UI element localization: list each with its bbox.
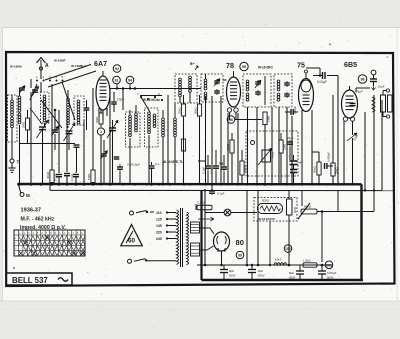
svg-text:10H: 10H — [275, 258, 281, 262]
svg-text:80: 80 — [236, 238, 244, 247]
svg-text:92: 92 — [115, 67, 119, 71]
svg-text:0.1µF: 0.1µF — [54, 173, 58, 181]
svg-text:0.0015µF: 0.0015µF — [127, 163, 140, 167]
svg-text:40kΩ: 40kΩ — [46, 171, 50, 179]
svg-text:0.1µF: 0.1µF — [217, 192, 225, 196]
svg-text:125: 125 — [156, 218, 162, 222]
svg-text:1MΩ: 1MΩ — [283, 143, 287, 150]
svg-text:BELL 537: BELL 537 — [12, 276, 48, 285]
svg-text:145: 145 — [156, 224, 162, 228]
svg-text:50kΩ: 50kΩ — [95, 117, 99, 123]
svg-text:110: 110 — [156, 211, 162, 215]
svg-text:0.1: 0.1 — [155, 162, 160, 166]
svg-text:25µF: 25µF — [356, 90, 363, 94]
svg-text:99: 99 — [238, 254, 242, 258]
svg-text:8µF: 8µF — [258, 269, 263, 273]
svg-text:25µF: 25µF — [287, 136, 294, 140]
svg-text:6A7: 6A7 — [94, 60, 107, 68]
svg-text:0.005µF: 0.005µF — [327, 152, 331, 162]
svg-text:W-16MT: W-16MT — [54, 59, 66, 63]
svg-text:0.05µF: 0.05µF — [327, 271, 337, 275]
svg-text:0.1µF: 0.1µF — [70, 173, 74, 181]
svg-text:M: M — [26, 193, 30, 198]
svg-text:5000: 5000 — [293, 206, 297, 213]
svg-text:75: 75 — [297, 62, 305, 70]
svg-text:25kΩ: 25kΩ — [178, 107, 182, 114]
svg-text:1.5kΩ: 1.5kΩ — [303, 259, 311, 263]
svg-text:0.1µF: 0.1µF — [202, 167, 206, 174]
svg-text:25kΩ: 25kΩ — [335, 167, 339, 174]
svg-text:2MΩ: 2MΩ — [271, 151, 275, 158]
svg-text:W-16 EXCIT.: W-16 EXCIT. — [258, 217, 275, 221]
svg-text:100pF: 100pF — [293, 106, 297, 114]
svg-text:T: T — [17, 160, 20, 165]
svg-text:101: 101 — [326, 263, 332, 267]
svg-text:W-16 MFE-TL: W-16 MFE-TL — [163, 160, 183, 164]
svg-text:0.01µF: 0.01µF — [317, 80, 327, 84]
svg-text:0.1µF: 0.1µF — [210, 167, 214, 174]
svg-text:TB: TB — [219, 162, 224, 166]
svg-text:300Ω: 300Ω — [226, 143, 230, 151]
svg-text:8µF: 8µF — [289, 271, 294, 275]
svg-text:500V: 500V — [258, 274, 265, 278]
svg-text:G: G — [15, 238, 17, 240]
svg-text:6B5: 6B5 — [344, 61, 357, 69]
svg-text:220: 220 — [156, 231, 162, 235]
svg-text:1: 1 — [100, 130, 102, 134]
svg-text:1936-37: 1936-37 — [21, 208, 42, 214]
svg-text:78: 78 — [226, 62, 234, 70]
svg-text:1MΩ: 1MΩ — [87, 173, 91, 180]
svg-text:M.F. - 462 kHz: M.F. - 462 kHz — [21, 217, 55, 223]
svg-text:2MΩ: 2MΩ — [22, 122, 26, 128]
svg-text:O: O — [15, 248, 17, 250]
svg-text:50kΩ: 50kΩ — [313, 165, 317, 173]
svg-text:1MΩ: 1MΩ — [267, 115, 271, 122]
svg-text:50kΩ: 50kΩ — [194, 107, 198, 114]
svg-text:8µF: 8µF — [229, 269, 234, 273]
svg-text:98: 98 — [361, 78, 365, 82]
svg-text:10µF: 10µF — [378, 85, 385, 89]
svg-text:100: 100 — [285, 247, 291, 251]
svg-text:W-16 MOsc: W-16 MOsc — [143, 98, 160, 102]
svg-text:500Ω: 500Ω — [262, 199, 270, 203]
svg-text:500Ω: 500Ω — [244, 164, 248, 172]
svg-text:500V: 500V — [289, 276, 296, 280]
svg-text:91: 91 — [115, 79, 119, 83]
svg-text:94: 94 — [128, 79, 132, 83]
svg-text:245: 245 — [156, 237, 162, 241]
svg-text:A: A — [45, 63, 49, 69]
svg-text:2.2kΩ: 2.2kΩ — [197, 201, 206, 205]
svg-text:500V: 500V — [327, 276, 334, 280]
svg-text:96: 96 — [229, 118, 233, 122]
svg-text:W-16MA: W-16MA — [10, 65, 23, 69]
svg-text:W-16 MF2: W-16 MF2 — [258, 66, 273, 70]
svg-text:B+: B+ — [190, 62, 194, 66]
svg-text:500V: 500V — [229, 274, 236, 278]
